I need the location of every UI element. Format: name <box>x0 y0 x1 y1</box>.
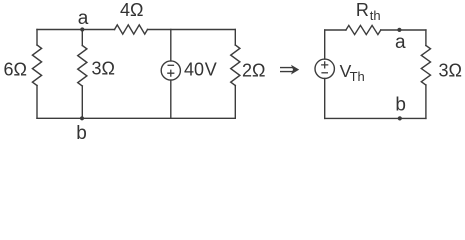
svg-text:a: a <box>395 32 406 53</box>
svg-text:3Ω: 3Ω <box>439 61 462 81</box>
svg-text:b: b <box>395 94 406 115</box>
svg-text:th: th <box>370 8 381 23</box>
svg-text:2Ω: 2Ω <box>242 60 265 80</box>
svg-text:6Ω: 6Ω <box>4 59 27 79</box>
svg-text:b: b <box>76 123 87 142</box>
svg-text:4Ω: 4Ω <box>120 0 143 20</box>
svg-text:3Ω: 3Ω <box>92 58 115 78</box>
svg-text:Th: Th <box>350 69 365 84</box>
svg-text:R: R <box>356 0 369 20</box>
svg-text:a: a <box>78 8 89 29</box>
svg-text:V: V <box>205 60 217 80</box>
svg-text:40: 40 <box>184 60 204 80</box>
